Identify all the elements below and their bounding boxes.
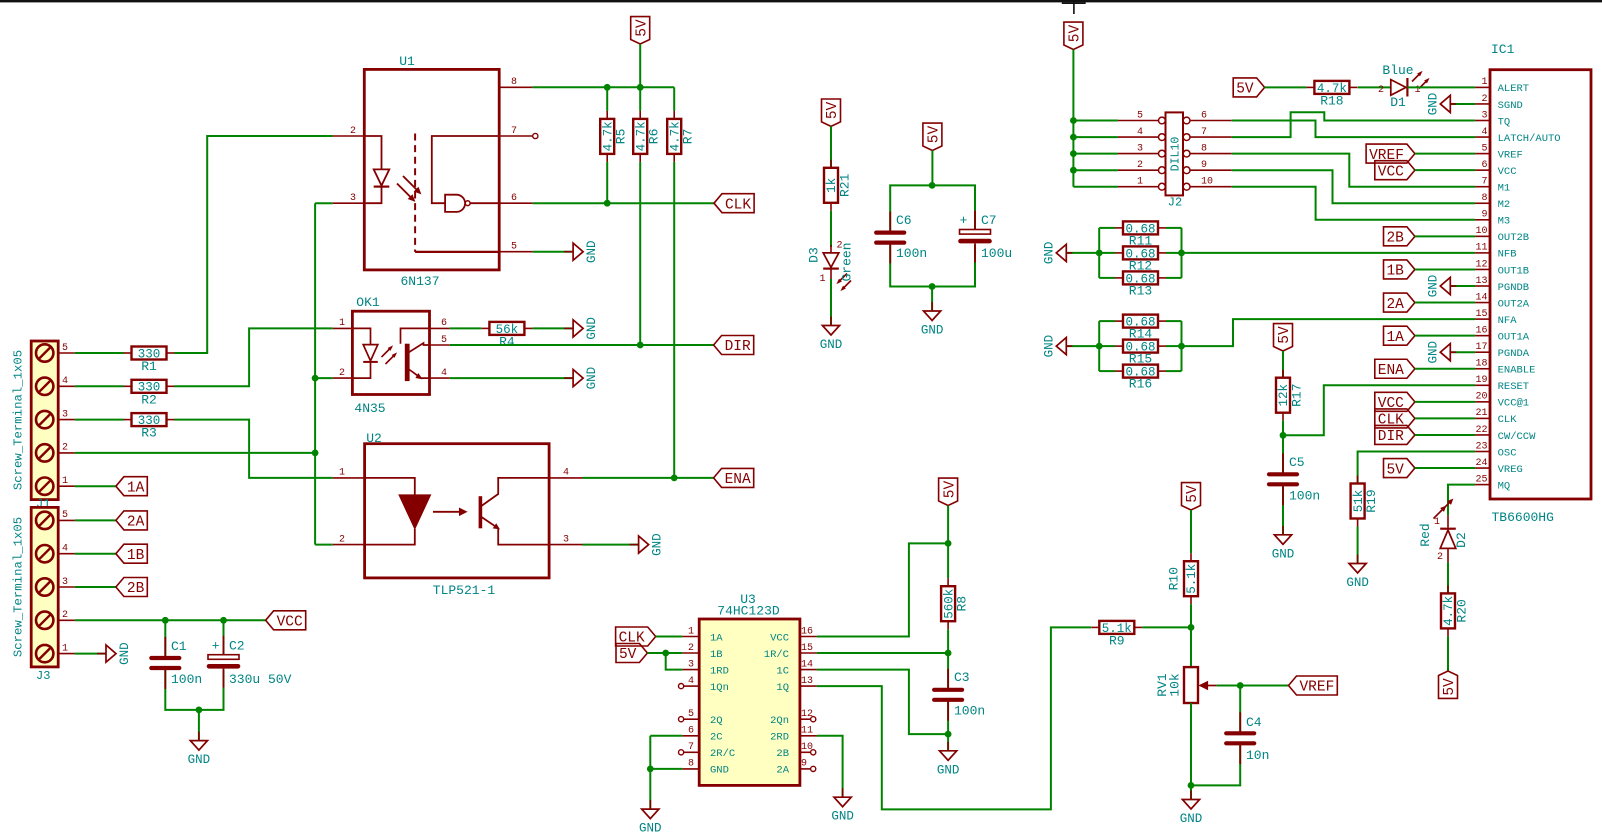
svg-text:1: 1 — [819, 274, 825, 285]
svg-text:SGND: SGND — [1498, 100, 1523, 112]
svg-text:VCC: VCC — [1498, 166, 1517, 178]
svg-text:VREF: VREF — [1498, 149, 1523, 161]
svg-text:5V: 5V — [1442, 678, 1458, 696]
svg-text:GND: GND — [937, 763, 960, 777]
svg-text:5V: 5V — [1236, 82, 1254, 98]
wire NFA to IC1 — [1182, 319, 1476, 346]
svg-text:2A: 2A — [776, 765, 789, 777]
wire U1 pin8 5V rail — [533, 86, 675, 88]
svg-text:ENA: ENA — [1378, 363, 1404, 379]
svg-text:1Qn: 1Qn — [710, 682, 729, 694]
wire J2.10 to M3 — [1232, 187, 1475, 220]
wire C6 C7 top rail — [890, 185, 975, 230]
svg-text:5V: 5V — [927, 126, 943, 144]
screw terminal J3 — [31, 507, 58, 667]
svg-text:GND: GND — [1426, 93, 1440, 116]
label 1A at IC1 — [1384, 326, 1415, 345]
svg-text:2: 2 — [350, 126, 356, 137]
LED D3 Green — [830, 245, 832, 253]
svg-text:R18: R18 — [1320, 93, 1343, 108]
resistor R12 0.68 — [1123, 246, 1158, 259]
svg-text:GND: GND — [1426, 341, 1440, 364]
svg-text:4: 4 — [1137, 127, 1143, 138]
ground J3 pin1 — [97, 653, 106, 655]
svg-text:R5: R5 — [614, 129, 629, 145]
ground C5 — [1282, 526, 1284, 535]
ground R4 — [564, 327, 573, 329]
svg-text:J3: J3 — [36, 669, 50, 683]
power 5V above R6 — [631, 17, 650, 44]
junction R7 ENA — [671, 475, 678, 482]
svg-text:R4: R4 — [499, 334, 515, 349]
wire J1.5 to R1 — [75, 352, 124, 354]
wire J1.3 to R3 — [75, 419, 124, 421]
svg-text:GND: GND — [1180, 812, 1203, 826]
ground U2 pin3 — [630, 544, 639, 546]
svg-text:2B: 2B — [1386, 231, 1404, 247]
wire rail to J2 pin1 — [1073, 186, 1118, 188]
svg-text:20: 20 — [1475, 392, 1487, 403]
label DIR — [714, 336, 754, 355]
svg-text:R9: R9 — [1109, 633, 1125, 648]
svg-text:5V: 5V — [1068, 25, 1084, 43]
wire VCC to C1 — [164, 620, 166, 656]
IC IC1 TB6600HG — [1490, 70, 1591, 499]
svg-text:1B: 1B — [1386, 264, 1404, 280]
svg-text:5: 5 — [62, 510, 68, 521]
svg-text:GND: GND — [118, 642, 132, 665]
svg-text:R2: R2 — [141, 392, 157, 407]
svg-text:14: 14 — [1475, 292, 1487, 303]
wire J2.9 to M2 — [1232, 170, 1475, 203]
svg-text:U1: U1 — [399, 54, 415, 69]
svg-text:15: 15 — [801, 643, 813, 654]
wire OK1 pin6 to R4 — [450, 327, 482, 329]
wire R20 to 5V — [1447, 636, 1449, 671]
label CLK — [714, 194, 754, 213]
junction J2 rail — [1070, 117, 1077, 124]
wire R10 to node — [1190, 604, 1192, 627]
svg-text:100n: 100n — [1289, 489, 1320, 504]
wire R18 to D1 — [1358, 86, 1391, 88]
svg-text:6: 6 — [1201, 110, 1207, 121]
OK1 phototransistor — [405, 344, 410, 381]
svg-text:2B: 2B — [127, 581, 145, 597]
svg-text:2R/C: 2R/C — [710, 748, 735, 760]
svg-text:1A: 1A — [127, 480, 145, 496]
svg-text:2: 2 — [1137, 160, 1143, 171]
label VREF at IC1 — [1366, 144, 1415, 163]
power 5V above J2 — [1064, 22, 1083, 49]
svg-text:GND: GND — [1272, 547, 1295, 561]
wire U3 pin6 to pin8 GND — [650, 735, 682, 737]
resistor R21 1k — [824, 168, 838, 203]
power 5V above C6 C7 — [923, 123, 942, 150]
junction R5 top — [604, 84, 611, 91]
svg-text:3: 3 — [563, 534, 569, 545]
wire 5V rail J2 — [1072, 50, 1074, 187]
wire MQ to D2 — [1448, 485, 1475, 516]
svg-text:R10: R10 — [1167, 567, 1182, 590]
screw terminal J1 — [31, 341, 58, 500]
svg-text:+: + — [960, 213, 968, 228]
svg-text:Green: Green — [840, 242, 855, 281]
svg-text:6: 6 — [511, 193, 517, 204]
wire J1.4 to R2 — [75, 385, 124, 387]
svg-text:1: 1 — [1137, 177, 1143, 188]
wire J1.1 to 1A — [75, 485, 116, 487]
svg-text:1A: 1A — [710, 632, 723, 644]
svg-text:11: 11 — [801, 726, 813, 737]
wire network left rail — [1098, 321, 1100, 371]
svg-text:GND: GND — [639, 822, 662, 836]
svg-text:2: 2 — [1481, 94, 1487, 105]
svg-text:1R/C: 1R/C — [764, 649, 789, 661]
svg-text:VCC: VCC — [277, 615, 303, 631]
wire U3 1Q to R9 — [817, 627, 1091, 809]
resistor R13 0.68 — [1123, 271, 1158, 284]
svg-text:1RD: 1RD — [710, 665, 729, 677]
svg-text:7: 7 — [688, 742, 694, 753]
svg-text:2: 2 — [339, 534, 345, 545]
svg-text:8: 8 — [1481, 193, 1487, 204]
svg-text:2: 2 — [1437, 552, 1443, 563]
svg-text:5V: 5V — [1386, 462, 1404, 478]
svg-text:OUT1B: OUT1B — [1498, 265, 1530, 277]
label 2B — [116, 578, 147, 597]
resistor R7 4.7k — [673, 87, 675, 111]
LED D2 Red — [1441, 501, 1452, 512]
svg-text:1C: 1C — [776, 665, 789, 677]
wire node to RESET — [1283, 385, 1475, 435]
svg-text:1B: 1B — [127, 548, 145, 564]
wire U1 pin5 GND — [533, 251, 573, 253]
svg-text:R6: R6 — [647, 129, 662, 145]
svg-text:5: 5 — [1137, 110, 1143, 121]
ground OK1 pin4 — [564, 377, 573, 379]
svg-text:5V: 5V — [634, 19, 650, 37]
junction R5 CLK — [604, 200, 611, 207]
wire rail to J2 pin — [1073, 136, 1118, 138]
svg-text:100n: 100n — [171, 672, 202, 687]
svg-text:330u 50V: 330u 50V — [229, 672, 292, 687]
svg-text:GND: GND — [1426, 275, 1440, 298]
wire D3 to GND — [830, 279, 832, 326]
svg-text:6N137: 6N137 — [400, 274, 439, 289]
svg-text:2B: 2B — [776, 748, 789, 760]
svg-text:7: 7 — [1201, 127, 1207, 138]
svg-text:C2: C2 — [229, 639, 245, 654]
resistor R1 330 — [132, 347, 167, 360]
svg-text:16: 16 — [801, 626, 813, 637]
svg-text:21: 21 — [1475, 408, 1487, 419]
svg-text:74HC123D: 74HC123D — [717, 604, 780, 619]
wire rail to J2 pin — [1073, 169, 1118, 171]
svg-text:DIR: DIR — [1378, 429, 1404, 445]
svg-text:RESET: RESET — [1498, 381, 1530, 393]
svg-text:GND: GND — [710, 765, 729, 777]
svg-text:2A: 2A — [127, 515, 145, 531]
svg-text:R1: R1 — [141, 359, 157, 374]
svg-text:ALERT: ALERT — [1498, 83, 1530, 95]
wire R1 to U1 pin2 — [175, 136, 333, 353]
svg-text:3: 3 — [350, 193, 356, 204]
svg-text:OK1: OK1 — [356, 295, 380, 310]
wire U2 pin3 GND — [583, 544, 639, 546]
wire R17 to node — [1282, 421, 1284, 436]
wire node to RV1 — [1190, 627, 1192, 667]
junction OK1 pin2 — [312, 375, 319, 382]
svg-text:1B: 1B — [710, 649, 723, 661]
svg-text:22: 22 — [1475, 425, 1487, 436]
svg-text:ENA: ENA — [725, 472, 751, 488]
svg-text:6: 6 — [688, 726, 694, 737]
svg-text:11: 11 — [1475, 243, 1487, 254]
svg-text:7: 7 — [511, 126, 517, 137]
wire NFB to IC1 — [1182, 252, 1476, 254]
svg-text:D2: D2 — [1454, 532, 1469, 548]
wire VCC to C2 — [223, 620, 225, 654]
svg-text:2A: 2A — [1386, 297, 1404, 313]
ground IC1 SGND — [1450, 103, 1475, 105]
power 5V above R8 — [939, 478, 958, 505]
wire U2 pin4 ENA — [583, 477, 714, 479]
svg-text:4: 4 — [62, 544, 68, 555]
ground C3 — [947, 742, 949, 751]
ground C1 C2 — [198, 732, 200, 741]
svg-text:GND: GND — [820, 338, 843, 352]
svg-text:10: 10 — [1475, 226, 1487, 237]
svg-text:18: 18 — [1475, 359, 1487, 370]
label VCC at IC1 pin6 — [1375, 161, 1415, 180]
label VCC — [266, 611, 306, 630]
ground C6 C7 — [931, 302, 933, 311]
svg-text:2RD: 2RD — [770, 732, 789, 744]
label VCC at IC1 pin20 — [1375, 392, 1415, 411]
svg-text:9: 9 — [801, 759, 807, 770]
svg-text:5: 5 — [511, 242, 517, 253]
svg-text:M3: M3 — [1498, 216, 1511, 228]
svg-text:C7: C7 — [981, 213, 997, 228]
wire to GND — [931, 287, 933, 312]
svg-text:17: 17 — [1475, 342, 1487, 353]
wire J2.7 hop to TQ — [1232, 112, 1475, 137]
svg-text:GND: GND — [585, 240, 599, 263]
wire U3 2RD to GND — [817, 736, 843, 797]
svg-text:5.1k: 5.1k — [1185, 564, 1199, 594]
capacitor C4 10n — [1239, 686, 1241, 732]
label 1B — [116, 544, 147, 563]
svg-text:4: 4 — [441, 368, 447, 379]
svg-text:4: 4 — [688, 676, 694, 687]
svg-text:9: 9 — [1201, 160, 1207, 171]
sheet border — [0, 0, 1602, 2]
resistor R10 5.1k — [1184, 561, 1198, 596]
svg-text:TQ: TQ — [1498, 116, 1511, 128]
resistor R14 0.68 — [1123, 315, 1158, 328]
svg-text:100n: 100n — [954, 704, 985, 719]
wire R9 to node — [1142, 626, 1191, 628]
wire rail to J2 pin — [1073, 153, 1118, 155]
svg-text:3: 3 — [1137, 143, 1143, 154]
svg-text:2: 2 — [688, 643, 694, 654]
label CLK at IC1 — [1375, 409, 1415, 428]
wire J3.5 to 2A — [75, 519, 116, 521]
svg-text:23: 23 — [1475, 441, 1487, 452]
svg-text:4: 4 — [62, 376, 68, 387]
resistor R8 560k — [947, 543, 949, 578]
ground sense network B — [1066, 252, 1099, 254]
svg-text:+: + — [212, 639, 220, 654]
wire 5V to 1RD — [666, 653, 683, 670]
wire RV1 wiper to VREF — [1217, 685, 1289, 687]
ground IC1 PGNDB — [1450, 285, 1475, 287]
svg-text:OSC: OSC — [1498, 447, 1517, 459]
svg-text:1: 1 — [1481, 77, 1487, 88]
label 5V at R18 — [1233, 78, 1264, 97]
svg-text:3: 3 — [1481, 110, 1487, 121]
capacitor C3 100n — [934, 688, 962, 692]
wire J3.3 to 2B — [75, 586, 116, 588]
wire R2 to OK1 pin1 — [175, 328, 333, 386]
wire J2.6 to LATCH — [1232, 121, 1475, 138]
wire R3 to U2 pin1 — [175, 420, 333, 478]
svg-text:2Q: 2Q — [710, 715, 723, 727]
wire U3 VCC to 5V — [817, 543, 948, 636]
svg-text:2: 2 — [1378, 85, 1384, 96]
resistor R2 330 — [132, 380, 167, 393]
label ENA — [714, 468, 754, 487]
svg-text:Blue: Blue — [1382, 63, 1413, 78]
optocoupler U1 6N137 — [364, 69, 499, 270]
svg-text:14: 14 — [801, 659, 813, 670]
label 2A — [116, 511, 147, 530]
svg-text:10: 10 — [1201, 177, 1213, 188]
svg-text:PGNDB: PGNDB — [1498, 282, 1530, 294]
label 2B — [1384, 227, 1415, 246]
resistor R20 4.7k — [1441, 593, 1455, 628]
svg-text:R21: R21 — [838, 173, 853, 197]
svg-text:8: 8 — [688, 759, 694, 770]
svg-text:GND: GND — [585, 317, 599, 340]
svg-text:C6: C6 — [896, 213, 912, 228]
label CLK at U3 — [616, 627, 656, 646]
svg-text:GND: GND — [1346, 576, 1369, 590]
IC U3 74HC123D — [699, 619, 800, 785]
capacitor C5 100n — [1282, 435, 1284, 472]
svg-text:U2: U2 — [366, 431, 382, 446]
wire D1 to IC1 pin1 — [1407, 86, 1475, 88]
svg-text:4: 4 — [563, 468, 569, 479]
svg-text:4N35: 4N35 — [354, 401, 385, 416]
U2 internal LED — [365, 478, 415, 495]
label ENA at IC1 — [1375, 359, 1415, 378]
resistor R6 4.7k — [639, 87, 641, 111]
wire J3.4 to 1B — [75, 553, 116, 555]
U1 photon arrows — [403, 176, 420, 193]
svg-text:PGNDA: PGNDA — [1498, 348, 1530, 360]
wire OSC to R19 — [1358, 452, 1476, 484]
svg-text:1: 1 — [62, 476, 68, 487]
svg-text:6: 6 — [1481, 160, 1487, 171]
svg-text:13: 13 — [1475, 276, 1487, 287]
svg-text:13: 13 — [801, 676, 813, 687]
resistor R15 0.68 — [1123, 340, 1158, 353]
connector J2 DIL10 — [1166, 112, 1184, 195]
svg-text:GND: GND — [921, 324, 944, 338]
label 2A — [1384, 293, 1415, 312]
wire J3.2 VCC — [75, 619, 266, 621]
wire network right rail — [1181, 321, 1183, 371]
optocoupler U2 TLP521-1 — [365, 444, 549, 578]
power 5V above R21 — [822, 99, 841, 126]
junction R6 5V — [637, 84, 644, 91]
svg-text:GND: GND — [585, 367, 599, 390]
wire R4 to GND — [533, 327, 574, 329]
svg-text:J2: J2 — [1168, 196, 1182, 210]
junction J2 rail — [1070, 150, 1077, 157]
svg-text:1: 1 — [62, 643, 68, 654]
label DIR at IC1 — [1375, 425, 1415, 444]
resistor R5 4.7k — [606, 87, 608, 111]
svg-text:GND: GND — [1042, 335, 1056, 358]
svg-text:5V: 5V — [619, 647, 637, 663]
svg-text:3: 3 — [62, 577, 68, 588]
svg-text:NFB: NFB — [1498, 249, 1517, 261]
svg-text:M1: M1 — [1498, 183, 1511, 195]
svg-text:NFA: NFA — [1498, 315, 1518, 327]
wire R8 to C3 — [947, 629, 949, 688]
ground U1 pin5 — [564, 251, 573, 253]
OK1 photon arrows — [382, 347, 392, 357]
resistor R4 56k — [489, 322, 524, 335]
label 1B — [1384, 260, 1415, 279]
label 1A — [116, 477, 147, 496]
wire U1 pin6 CLK — [533, 202, 714, 204]
svg-text:R3: R3 — [141, 426, 157, 441]
svg-text:C4: C4 — [1246, 715, 1262, 730]
svg-text:GND: GND — [1042, 242, 1056, 265]
component pin stubs — [164, 637, 166, 657]
wire C3 to GND — [947, 702, 949, 751]
junction J2 rail — [1070, 167, 1077, 174]
svg-text:1: 1 — [688, 626, 694, 637]
wire C6 C7 bottom rail — [890, 245, 975, 287]
capacitor C1 100n — [151, 656, 179, 660]
resistor R17 12k — [1276, 378, 1290, 413]
svg-text:CW/CCW: CW/CCW — [1498, 431, 1537, 443]
svg-text:5V: 5V — [825, 101, 841, 119]
svg-text:100u: 100u — [981, 246, 1012, 261]
svg-text:R7: R7 — [681, 129, 696, 145]
svg-text:TLP521-1: TLP521-1 — [433, 583, 496, 598]
svg-text:2: 2 — [62, 610, 68, 621]
U2 phototransistor — [479, 496, 483, 528]
wire U3 1R/C — [817, 652, 948, 654]
svg-text:CLK: CLK — [1498, 414, 1518, 426]
wire U3 1C to C3 — [817, 670, 948, 735]
capacitor C2 330u polarized — [208, 655, 239, 660]
power 5V below R20 — [1439, 671, 1458, 698]
OK1 internal LED — [352, 328, 370, 344]
svg-text:Red: Red — [1418, 523, 1433, 546]
svg-text:OUT2A: OUT2A — [1498, 298, 1530, 310]
wire C1 C2 to GND — [165, 670, 223, 710]
svg-text:10n: 10n — [1246, 748, 1269, 763]
U2 photon arrow — [433, 511, 462, 513]
U1 internal shield to pin5 — [415, 251, 499, 253]
svg-text:24: 24 — [1475, 458, 1487, 469]
